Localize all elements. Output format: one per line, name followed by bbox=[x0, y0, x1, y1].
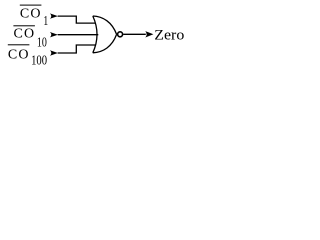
NOR gate U1 body bbox=[93, 16, 117, 53]
svg-text:CO: CO bbox=[20, 7, 42, 22]
svg-text:CO: CO bbox=[14, 27, 36, 42]
output wire bbox=[123, 33, 146, 35]
node CO10 label bbox=[13, 25, 47, 50]
input arrow 2 bbox=[50, 32, 58, 37]
svg-text:1: 1 bbox=[43, 14, 48, 29]
node CO100 label bbox=[8, 44, 47, 68]
svg-text:10: 10 bbox=[37, 35, 47, 50]
svg-text:CO: CO bbox=[8, 47, 30, 62]
input arrow 1 bbox=[50, 13, 58, 18]
svg-text:100: 100 bbox=[31, 54, 47, 69]
output arrowhead bbox=[145, 31, 153, 37]
node CO1 label bbox=[20, 5, 48, 29]
wire input 1 bbox=[58, 16, 96, 23]
wire input 3 bbox=[58, 45, 96, 53]
svg-text:Zero: Zero bbox=[154, 27, 184, 43]
wire input 2 bbox=[58, 34, 99, 36]
input arrow 3 bbox=[50, 50, 58, 55]
NOR gate inversion bubble bbox=[118, 32, 123, 37]
